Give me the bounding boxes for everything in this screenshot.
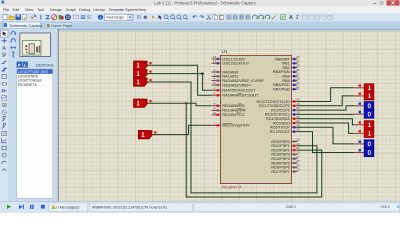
pin 37 RB4 (right): [282, 72, 299, 78]
tab bar: [0, 22, 400, 29]
svg-text:7: 7: [214, 91, 216, 95]
svg-text:+500.0: +500.0: [380, 205, 390, 209]
pin 17 RC2/CCP1 (right): [271, 106, 300, 112]
svg-text:LOGICTOGGLE: LOGICTOGGLE: [18, 79, 43, 83]
svg-text:Tool: Tool: [37, 7, 44, 12]
wire RC2 to probe P3: [298, 106, 355, 110]
wire RC3 to probe P4: [298, 113, 355, 115]
svg-text:View: View: [25, 7, 34, 12]
wire RC0 to probe P1: [298, 88, 355, 102]
pin 26 RC7/RX/DT (right): [270, 128, 300, 134]
pin 20 RD1/PSP1 (right): [271, 142, 299, 148]
svg-text:Template: Template: [109, 7, 125, 12]
pin 21 RD2/PSP2 (right): [271, 146, 299, 152]
logic probe P4 value 0: [354, 110, 374, 118]
pin 24 RC5/SDO (right): [273, 119, 300, 125]
svg-text:RE1/AN6/WR: RE1/AN6/WR: [222, 109, 245, 113]
PIC16F877A U1 body: [221, 55, 292, 183]
wire RC4 to probe P5: [298, 119, 355, 125]
pin 36 RB3/PGM (right): [273, 68, 300, 74]
wire corner dot: [202, 73, 204, 75]
pin 16 RC1/T1OSI/CCP2 (right): [259, 102, 300, 108]
svg-text:10: 10: [213, 111, 217, 115]
active-low overbars: [238, 92, 242, 94]
svg-text:5: 5: [214, 81, 216, 85]
wire RC6 to probe P7: [298, 127, 355, 144]
svg-text:RA5/AN4/SS/C2OUT: RA5/AN4/SS/C2OUT: [222, 94, 259, 98]
svg-text:LOGICPROBE (BIG): LOGICPROBE (BIG): [18, 70, 49, 74]
status bar: [0, 202, 400, 214]
stop button: [41, 205, 45, 209]
pin 35 RB2 (right): [282, 64, 299, 70]
pin 3 RA1/AN1 (left): [212, 72, 239, 78]
pin 6 RA4/T0CKI/C1OUT (left): [212, 86, 257, 92]
svg-text:Debug: Debug: [79, 7, 90, 12]
svg-text:Lab 2 (1) - Proteus 8 Professi: Lab 2 (1) - Proteus 8 Professional - Sch…: [154, 1, 257, 6]
wire LS5 to MCLR: [153, 125, 212, 134]
junction dot LS4 branch: [185, 102, 187, 104]
pin 19 RD0/PSP0 (right): [271, 138, 299, 144]
svg-text:9: 9: [214, 107, 216, 111]
pin 13 OSC1/CLKIN (left): [212, 55, 246, 61]
play button: [7, 205, 11, 209]
pin 33 RB0/INT (right): [275, 55, 300, 61]
pin 39 RB6/PGC (right): [273, 81, 300, 87]
svg-text:RB4: RB4: [282, 75, 289, 79]
pin 1 MCLR/Vpp/THV (left): [212, 121, 251, 127]
pause button: [30, 205, 31, 209]
svg-text:Library: Library: [93, 7, 105, 12]
svg-text:Graph: Graph: [66, 7, 77, 12]
svg-text:RA4/T0CKI/C1OUT: RA4/T0CKI/C1OUT: [222, 89, 256, 93]
logicstate LS2 value 1: [134, 69, 152, 78]
svg-text:-3080.0: -3080.0: [285, 205, 296, 209]
svg-text:U1: U1: [222, 49, 228, 54]
svg-text:A: A: [289, 15, 293, 21]
svg-text:Home Page: Home Page: [51, 23, 72, 28]
svg-text:RA2/AN2/VREF-/CVREF: RA2/AN2/VREF-/CVREF: [222, 79, 265, 83]
wire LS4 to RE0: [148, 103, 212, 106]
svg-text:1: 1: [214, 121, 216, 125]
svg-text:RB7/PGD: RB7/PGD: [273, 88, 290, 92]
pin 25 RC6/TX/CK (right): [270, 123, 300, 129]
logic probe P6 value 1: [354, 129, 374, 137]
svg-text:0 Message(s): 0 Message(s): [57, 205, 81, 209]
logic probe P8 value 0: [354, 148, 374, 156]
wire LS1 to RA5: [148, 65, 212, 95]
step button: [19, 205, 23, 209]
wire RC1 to probe P2: [298, 96, 355, 106]
devices list: [17, 69, 53, 199]
pin 40 RB7/PGD (right): [273, 85, 300, 91]
pin 29 RD6/PSP6 (right): [271, 163, 299, 169]
canvas top border: [0, 29, 400, 31]
svg-text:Edit: Edit: [13, 7, 21, 12]
svg-text:P: P: [18, 62, 21, 67]
logic probe P1 value 1: [354, 84, 374, 92]
wire LS4 branch to RD2 around bottom: [186, 103, 322, 197]
pin 28 RD5/PSP5 (right): [271, 159, 299, 165]
pin 34 RB1 (right): [282, 59, 299, 65]
pin 38 RB5 (right): [282, 77, 299, 83]
coords field: [195, 203, 400, 211]
message field: [49, 203, 88, 211]
svg-text:Root Design: Root Design: [107, 16, 125, 20]
svg-text:LOGICSTATE: LOGICSTATE: [18, 74, 39, 78]
logic probe P2 value 1: [354, 92, 374, 100]
svg-text:26: 26: [296, 128, 300, 132]
svg-text:Help: Help: [139, 7, 147, 12]
svg-text:Design: Design: [50, 7, 62, 12]
svg-text:i: i: [100, 15, 101, 20]
logicstate LS1 value 1: [134, 61, 152, 70]
left panel background: [0, 29, 59, 202]
svg-text:40: 40: [296, 85, 300, 89]
svg-text:MCLR/Vpp/THV: MCLR/Vpp/THV: [222, 124, 250, 128]
svg-text:30: 30: [296, 168, 300, 172]
logicstate LS5 value 1: [138, 130, 156, 139]
svg-text:8: 8: [214, 102, 216, 106]
wire RC5 to probe P6: [298, 123, 355, 133]
svg-text:6: 6: [214, 86, 216, 90]
pin 30 RD7/PSP7 (right): [271, 168, 299, 174]
left mode toolbar: [0, 29, 9, 202]
wire RC7 to probe P8: [298, 132, 355, 153]
toolbar: [0, 13, 400, 22]
svg-text:th: th: [397, 205, 400, 209]
rotate controls column: [11, 31, 16, 35]
animating field: [90, 203, 193, 211]
svg-text:RA3/AN3/VREF+: RA3/AN3/VREF+: [222, 83, 252, 87]
svg-text:37: 37: [296, 72, 300, 76]
svg-text:File: File: [3, 7, 9, 12]
logic probe P7 value 0: [354, 140, 374, 148]
overview window: [20, 33, 51, 57]
pin 8 RE0/AN5/RD (left): [212, 102, 246, 108]
pin 18 RC3/SCK/SCL (right): [265, 111, 300, 117]
pin 9 RE1/AN6/WR (left): [212, 107, 246, 113]
title bar: [0, 0, 400, 6]
pin 27 RD4/PSP4 (right): [271, 155, 299, 161]
pin 5 RA3/AN3/VREF+ (left): [212, 81, 253, 87]
svg-text:OSC2/CLKOUT: OSC2/CLKOUT: [222, 62, 249, 66]
svg-text:PIC16F877A: PIC16F877A: [18, 83, 38, 87]
svg-text:RE2/AN7/CS: RE2/AN7/CS: [222, 113, 245, 117]
wire LS3 to RD1 around bottom: [148, 82, 317, 193]
svg-text:RC7/RX/DT: RC7/RX/DT: [270, 130, 291, 134]
canvas: [59, 30, 400, 201]
svg-text:4: 4: [214, 77, 216, 81]
svg-text:ANIMATING: 00:01:52.214758 (CP: ANIMATING: 00:01:52.214758 (CPU load 61%…: [92, 205, 167, 209]
logicstate LS3 value 1: [134, 77, 152, 86]
logic probe P5 value 1: [354, 121, 374, 129]
pin 23 RC4/SDI/SDA (right): [266, 115, 300, 121]
pin 14 OSC2/CLKOUT (left): [212, 59, 250, 65]
svg-text:RE0/AN5/RD: RE0/AN5/RD: [222, 104, 245, 108]
pin 7 RA5/AN4/SS/C2OUT (left): [212, 91, 259, 97]
pin 4 RA2/AN2/VREF-/CVREF (left): [212, 77, 266, 83]
pin 10 RE2/AN7/CS (left): [212, 111, 246, 117]
svg-text:PIC16F877A: PIC16F877A: [222, 185, 243, 189]
pin 2 RA0/AN0 (left): [212, 68, 239, 74]
svg-text:System: System: [125, 7, 138, 12]
logicstate LS4 value 1: [134, 99, 152, 108]
wire LS2 to RA4: [148, 74, 212, 91]
svg-text:14: 14: [213, 59, 217, 63]
pin 15 RC0/T1OSO/T1CKI (right): [256, 98, 299, 104]
pin 22 RD3/PSP3 (right): [271, 151, 299, 157]
svg-text:RD7/PSP7: RD7/PSP7: [271, 170, 289, 174]
DEVICES header: [17, 62, 22, 68]
svg-text:DEVICES: DEVICES: [36, 62, 54, 67]
logic probe P3 value 0: [354, 102, 374, 110]
menu bar: [0, 6, 400, 13]
